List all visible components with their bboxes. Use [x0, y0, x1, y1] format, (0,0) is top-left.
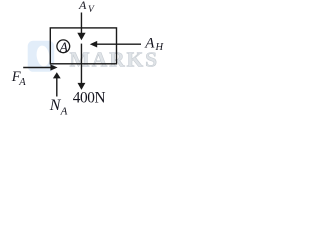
svg-text:A: A	[59, 39, 69, 54]
watermark logo patch	[28, 41, 55, 72]
label A_V	[78, 0, 95, 15]
force arrow N_A	[53, 72, 61, 96]
svg-text:A: A	[18, 77, 26, 88]
label A_H	[144, 36, 164, 53]
pin symbol circled A	[57, 39, 70, 54]
svg-text:A: A	[78, 0, 87, 12]
svg-text:A: A	[144, 36, 155, 52]
wire 400N force line	[80, 44, 82, 84]
label F_A	[11, 69, 26, 88]
arrowhead 400N	[78, 83, 86, 90]
wire vertical force line A_V/400N	[80, 13, 82, 35]
force arrow A_H	[90, 41, 141, 48]
svg-text:A: A	[60, 106, 68, 117]
label N_A	[49, 97, 68, 118]
force arrow F_A	[23, 64, 57, 70]
body rectangle	[50, 28, 116, 64]
svg-text:H: H	[155, 42, 165, 53]
svg-text:400N: 400N	[73, 89, 106, 106]
label 400N	[73, 89, 106, 106]
svg-text:V: V	[88, 5, 95, 15]
watermark text MARKS	[70, 48, 160, 72]
watermark logo inner swoosh	[35, 45, 50, 68]
arrowhead A_V	[77, 33, 85, 41]
